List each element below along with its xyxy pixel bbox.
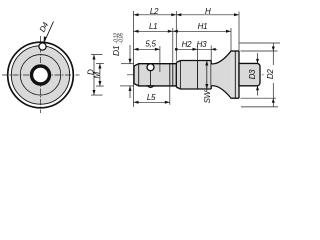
extension line lip left H1 <box>230 28 232 51</box>
svg-text:H: H <box>205 7 211 16</box>
svg-text:H3: H3 <box>197 40 207 49</box>
extension line lip right H <box>238 12 240 52</box>
dim D line <box>93 55 95 96</box>
svg-text:-0,12: -0,12 <box>114 33 120 44</box>
dim D2 extension lines <box>241 50 278 52</box>
svg-text:SW: SW <box>203 89 212 103</box>
svg-text:H2: H2 <box>182 40 192 49</box>
svg-text:H1: H1 <box>198 22 208 31</box>
dim D2 line <box>272 43 274 65</box>
knob head <box>239 63 260 85</box>
knob outer circle <box>8 42 74 108</box>
dim H <box>176 14 239 16</box>
svg-text:L2: L2 <box>150 7 159 16</box>
svg-text:D2: D2 <box>266 69 275 79</box>
leader D4 <box>44 22 54 44</box>
dim D1 line <box>129 45 131 64</box>
knob neck <box>211 51 231 98</box>
extension line sleeve face <box>175 11 177 61</box>
extension line groove L1 <box>172 28 174 64</box>
svg-text:D1: D1 <box>111 45 121 56</box>
svg-text:D3: D3 <box>248 69 257 79</box>
pin ring front view <box>32 66 50 84</box>
shaft groove lines <box>169 64 171 86</box>
extension line ball 5,5 <box>159 46 161 72</box>
ball bore hidden line <box>150 71 152 86</box>
dim H2 H3 <box>176 48 217 50</box>
front view gray annulus <box>11 46 69 104</box>
extension line L5 right <box>169 86 171 105</box>
knob stem circle <box>20 55 61 96</box>
dim M extension lines <box>96 63 104 65</box>
dim D2 top leader <box>240 42 281 44</box>
dim L2 <box>134 14 177 16</box>
pin shaft <box>134 64 176 86</box>
extension line hex right H3 <box>210 46 212 61</box>
dim L5 <box>134 101 170 103</box>
dim H1 <box>173 30 231 32</box>
centerline vertical front view <box>40 36 42 113</box>
dim D3 <box>257 53 259 63</box>
knob inner circle <box>11 46 69 104</box>
dim L1 <box>134 30 173 32</box>
dim D2 bottom leader <box>241 106 278 108</box>
extension line pin tip <box>133 11 135 107</box>
ball protruding bottom <box>148 86 154 88</box>
dim SW <box>206 61 208 92</box>
centerline horizontal front view <box>2 74 80 76</box>
extension line hex H2 <box>197 46 199 61</box>
svg-text:L5: L5 <box>147 93 156 102</box>
knob lip <box>231 51 239 98</box>
svg-text:5,5: 5,5 <box>145 40 156 49</box>
dim 5,5 <box>134 48 160 50</box>
side view centerline <box>127 74 265 76</box>
sleeve body <box>176 61 211 90</box>
svg-text:L1: L1 <box>149 22 157 31</box>
dim D extension lines <box>91 54 103 56</box>
ball circle <box>147 64 154 71</box>
svg-text:M: M <box>92 71 101 78</box>
dim D1 extension lines <box>121 63 134 65</box>
hole D4 circle <box>39 43 46 50</box>
dim M line <box>99 64 101 87</box>
